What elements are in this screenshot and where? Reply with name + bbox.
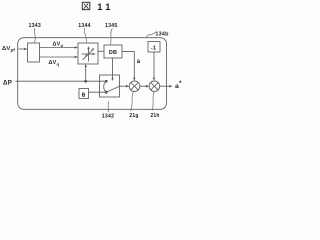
svg-text:21g: 21g (129, 113, 138, 119)
svg-text:1344: 1344 (78, 23, 91, 29)
svg-text:θ: θ (82, 92, 86, 99)
svg-text:a*: a* (175, 80, 182, 90)
svg-text:ΔVd: ΔVd (53, 42, 64, 48)
svg-text:ΔP: ΔP (3, 80, 12, 87)
svg-text:a: a (137, 59, 141, 65)
svg-text:1345: 1345 (105, 23, 118, 29)
svg-text:1343: 1343 (29, 23, 42, 29)
svg-text:1: 1 (105, 1, 110, 12)
svg-text:DB: DB (109, 50, 117, 56)
svg-text:ΔVpf: ΔVpf (2, 46, 15, 53)
svg-text:ΔVq: ΔVq (49, 60, 60, 66)
svg-text:134b: 134b (155, 32, 169, 38)
svg-text:1342: 1342 (102, 114, 115, 120)
svg-text:-1: -1 (151, 45, 156, 51)
svg-text:1: 1 (97, 1, 102, 12)
svg-text:21h: 21h (150, 113, 159, 119)
